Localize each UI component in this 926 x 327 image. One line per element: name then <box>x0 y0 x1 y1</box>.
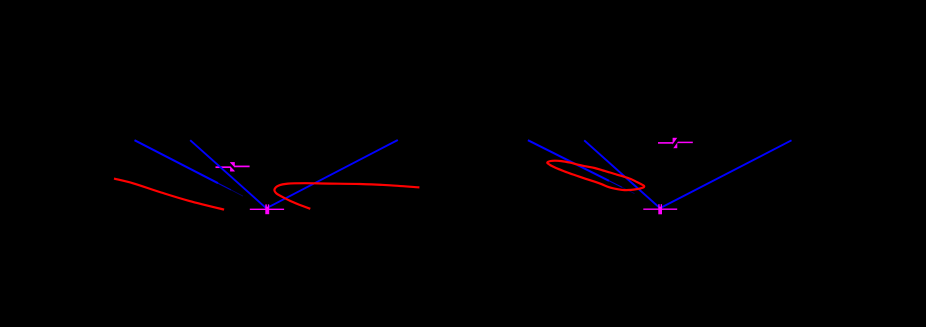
blue line R3 <box>661 140 792 208</box>
blue line L2 <box>190 140 266 208</box>
marker A horizontal bar (under lines) <box>216 165 250 168</box>
blue line L1 (tapered end) <box>135 140 244 196</box>
marker B (barred-cross symbol) <box>250 204 284 214</box>
right panel <box>528 138 792 215</box>
blue line R2 <box>584 140 659 207</box>
red fold caustic <box>274 183 419 209</box>
marker C (slashed-bar symbol) <box>658 138 693 149</box>
left panel <box>114 140 419 214</box>
red oval caustic <box>547 161 644 190</box>
red arc (left caustic segment) <box>114 179 224 210</box>
marker A slashed block <box>229 162 236 171</box>
blue line R1 (tapered end) <box>528 140 635 193</box>
blue line L3 <box>266 140 398 208</box>
marker D (barred-cross symbol) <box>643 204 677 214</box>
